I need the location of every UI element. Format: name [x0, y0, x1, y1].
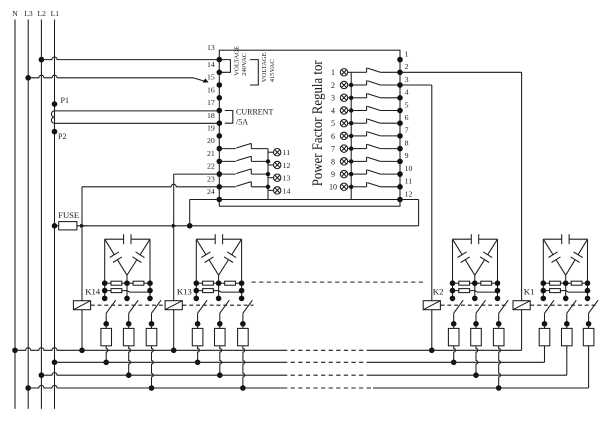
terminal 7 [397, 133, 403, 139]
main contact K2 phase 2 [476, 300, 486, 313]
wire terminal 24 to coil K14 with hop [82, 184, 219, 187]
svg-text:20: 20 [207, 136, 215, 145]
actuation dashed link of K14 [91, 304, 163, 306]
bus L3 vertical [27, 20, 29, 409]
discharge resistor row B of K1 [543, 290, 549, 292]
L3 distribution bus with hops over L2 L1 [28, 385, 283, 388]
wire CT l-terminal to terminal 19 [55, 122, 220, 124]
fixed contact dots of K1 [541, 296, 547, 302]
fuse of bank K2 phase 1 [448, 328, 459, 345]
relay switch for output 10 (terminal 11) [351, 186, 366, 188]
main contact K14 phase 1 [106, 300, 116, 313]
relay switch for output 13 (terminal 23) [219, 173, 236, 175]
delta capacitor on diagonal of K13 [232, 239, 242, 255]
capacitor unit K13 center leg [218, 275, 220, 298]
lead of bank K2 phase 3 to phase bus [499, 346, 501, 388]
junction L2 bottom bus [39, 372, 45, 378]
svg-text:4: 4 [331, 106, 335, 115]
delta capacitor on diagonal of K13 [196, 239, 206, 255]
wire terminal 23 to coil K13 [174, 173, 220, 175]
capacitor unit of bank K1 top edge with capacitor [543, 238, 561, 240]
lead of bank K1 phase 3 to phase bus [588, 346, 590, 388]
capacitor unit K2 left leg [452, 239, 454, 298]
junction right bus row 6 [349, 121, 353, 125]
junction bank K13 phase 2 [217, 372, 223, 378]
svg-text:17: 17 [207, 98, 215, 107]
svg-text:2: 2 [405, 62, 409, 71]
contactor coil K13 [165, 301, 182, 310]
relay switch for output 6 (terminal 7) [351, 135, 366, 137]
relay switch for output 12 (terminal 22) [219, 160, 236, 162]
junction coil K13 on N bus [171, 348, 177, 354]
crossing arrow at K13 coil riser [172, 224, 177, 228]
contactor coil K2 [423, 301, 440, 310]
junction right bus row 8 [349, 146, 353, 150]
left common bus inside U1 [267, 149, 269, 200]
capacitor unit of bank K2 top edge with capacitor [453, 238, 472, 240]
terminal 6 [397, 120, 403, 126]
left common exit terminal [217, 197, 223, 203]
junction right bus row 11 [349, 185, 353, 189]
bus L1 vertical [54, 20, 56, 409]
terminal 9 [397, 159, 403, 165]
svg-text:22: 22 [207, 162, 215, 171]
wire CT k-terminal to terminal 18 [55, 110, 220, 112]
fuse of bank K13 phase 3 [238, 328, 249, 345]
bracket VOLTAGE 415VAC terminals 14-16 [250, 60, 258, 85]
fuse F0 [59, 222, 77, 230]
terminal 22 [217, 159, 223, 165]
relay switch for output 4 (terminal 5) [351, 110, 366, 112]
discharge resistor row A of K2 [453, 282, 459, 284]
svg-text:12: 12 [405, 189, 413, 198]
terminal 5 [397, 108, 403, 114]
wire L1 to fuse F0 [55, 225, 59, 227]
capacitor unit K14 center leg [126, 275, 128, 298]
junction bank K2 phase 3 [496, 385, 502, 391]
svg-text:L3: L3 [24, 9, 33, 18]
svg-text:Power Factor Regula tor: Power Factor Regula tor [310, 60, 326, 186]
main contact K2 phase 3 [499, 300, 509, 313]
actuation dashed link of K13 [183, 304, 254, 306]
fuse of bank K1 phase 2 [562, 328, 573, 345]
fuse of bank K13 phase 1 [192, 328, 203, 345]
terminal 24 [217, 184, 223, 190]
junction L3 feed wire [25, 75, 31, 81]
delta capacitor on diagonal of K2 [453, 239, 463, 255]
svg-text:5: 5 [405, 100, 409, 109]
junction bank K2 phase 1 [451, 360, 457, 366]
capacitor unit K2 center leg [474, 275, 476, 298]
capacitor unit of bank K14 top edge with capacitor [105, 238, 124, 240]
svg-text:24: 24 [207, 187, 215, 196]
junction bank K14 phase 2 [126, 372, 132, 378]
main contact K2 phase 1 [454, 300, 464, 313]
svg-text:/5A: /5A [236, 118, 248, 127]
svg-text:13: 13 [207, 43, 215, 52]
svg-text:K2: K2 [433, 287, 444, 297]
svg-text:14: 14 [207, 60, 215, 69]
coil K14 lead to N bus [81, 310, 83, 351]
right common bus inside U1 [350, 72, 352, 199]
main contact K13 phase 2 [220, 300, 230, 313]
delta capacitor on diagonal of K1 [543, 239, 553, 255]
lead of bank K13 phase 2 to phase bus [220, 346, 222, 375]
svg-text:5: 5 [331, 119, 335, 128]
terminal 12 [397, 197, 403, 203]
lead of bank K13 phase 1 to phase bus [198, 346, 200, 363]
output lamp 11 [268, 151, 274, 153]
relay switch for output 11 (terminal 21) [219, 148, 236, 150]
svg-text:23: 23 [207, 174, 215, 183]
svg-text:9: 9 [331, 170, 335, 179]
svg-text:16: 16 [207, 85, 215, 94]
svg-text:10: 10 [405, 164, 413, 173]
svg-text:12: 12 [283, 161, 291, 170]
svg-text:N: N [12, 9, 18, 18]
fuse of bank K13 phase 2 [215, 328, 226, 345]
lead of bank K1 phase 2 to phase bus [566, 346, 568, 375]
lead of bank K1 phase 1 to phase bus [544, 346, 546, 363]
coil K1 lead to N bus [521, 310, 523, 351]
terminal 3 [397, 82, 403, 88]
capacitor unit K14 right leg [149, 239, 151, 298]
svg-text:19: 19 [207, 124, 215, 133]
main contact K1 phase 2 [567, 300, 577, 313]
main contact K1 phase 1 [545, 300, 555, 313]
discharge resistor row A of K13 [196, 282, 202, 284]
svg-text:10: 10 [329, 183, 337, 192]
junction bank K14 phase 1 [103, 360, 109, 366]
junction right bus row 5 [349, 108, 353, 112]
output lamp 12 [268, 164, 274, 166]
junction left bus row 24 [266, 185, 270, 189]
lead of bank K2 phase 2 to phase bus [476, 346, 478, 375]
junction left bus row 22 [266, 159, 270, 163]
fuse of bank K14 phase 2 [123, 328, 134, 345]
fuse of bank K2 phase 2 [471, 328, 482, 345]
wire common loop right branch [400, 199, 419, 201]
coil K2 lead to N bus [431, 310, 433, 351]
svg-text:15: 15 [207, 73, 215, 82]
terminal 18 [217, 108, 223, 114]
terminal 10 [397, 171, 403, 177]
terminal 16 [217, 82, 223, 88]
terminal 11 [397, 184, 403, 190]
terminal 19 [217, 120, 223, 126]
relay switch for output 1 (terminal 2) [351, 71, 366, 73]
L1 distribution bus [55, 361, 284, 363]
discharge resistor row A of K1 [543, 282, 549, 284]
junction right bus row 7 [349, 134, 353, 138]
svg-text:4: 4 [405, 88, 409, 97]
capacitor unit K14 left leg [104, 239, 106, 298]
main contact K13 phase 3 [243, 300, 253, 313]
arrow pointing to terminal 15 [193, 78, 206, 82]
wire L3 toward terminal 15 with hops over L2 and L1 [28, 75, 193, 78]
N distribution bus with hops over L3 L2 L1 [15, 348, 283, 351]
delta capacitor on diagonal of K14 [140, 239, 150, 255]
svg-text:2: 2 [331, 81, 335, 90]
junction coil K14 on N bus [79, 348, 85, 354]
svg-text:240VAC: 240VAC [241, 52, 248, 76]
relay switch for output 7 (terminal 8) [351, 148, 366, 150]
current transformer CT1 winding [51, 111, 54, 123]
output lamp 13 [268, 177, 274, 179]
svg-text:11: 11 [405, 177, 413, 186]
svg-text:9: 9 [405, 151, 409, 160]
junction coil K2 on N bus [429, 348, 435, 354]
terminal 17 [217, 95, 223, 101]
junction L1 bottom bus [52, 360, 58, 366]
svg-text:3: 3 [331, 94, 335, 103]
svg-text:P1: P1 [61, 96, 69, 105]
svg-text:1: 1 [331, 68, 335, 77]
lead of bank K14 phase 1 to phase bus [106, 346, 108, 363]
svg-text:L1: L1 [51, 9, 60, 18]
terminal 15 [217, 70, 223, 76]
svg-text:P2: P2 [58, 132, 66, 141]
wire L2 to terminal 14 with hop over L1 [41, 57, 219, 60]
svg-text:L2: L2 [37, 9, 46, 18]
crossing arrow at K14 coil riser [80, 224, 85, 228]
common line inside U1 [219, 199, 400, 201]
capacitor unit K1 center leg [565, 275, 567, 298]
discharge resistor row B of K2 [453, 290, 459, 292]
junction right bus row 3 [349, 83, 353, 87]
junction right bus row 9 [349, 159, 353, 163]
svg-text:21: 21 [207, 149, 215, 158]
junction right bus row 10 [349, 172, 353, 176]
relay switch for output 3 (terminal 4) [351, 97, 366, 99]
junction L1 control tap [52, 223, 58, 229]
svg-text:K14: K14 [85, 287, 101, 297]
output lamp 14 [268, 189, 274, 191]
capacitor unit K2 right leg [497, 239, 499, 298]
svg-text:1: 1 [405, 49, 409, 58]
actuation dashed link of K1 [530, 304, 598, 306]
relay switch for output 14 (terminal 24) [219, 186, 236, 188]
junction common loop [187, 223, 193, 229]
control wire fuse to common loop [77, 225, 416, 227]
svg-text:3: 3 [405, 75, 409, 84]
junction L2 to terminal 14 [39, 57, 45, 63]
bus N vertical [14, 20, 16, 409]
svg-text:8: 8 [331, 157, 335, 166]
fuse of bank K14 phase 1 [101, 328, 112, 345]
terminal 4 [397, 95, 403, 101]
svg-text:18: 18 [207, 111, 215, 120]
lead of bank K14 phase 2 to phase bus [129, 346, 131, 375]
svg-text:11: 11 [283, 148, 291, 157]
fuse of bank K1 phase 1 [539, 328, 550, 345]
delta capacitor on diagonal of K2 [488, 239, 498, 255]
relay switch for output 2 (terminal 3) [351, 84, 366, 86]
svg-text:7: 7 [405, 126, 409, 135]
svg-text:7: 7 [331, 145, 335, 154]
delta capacitor on diagonal of K1 [578, 239, 587, 255]
capacitor unit K1 left leg [542, 239, 544, 298]
contactor coil K1 [513, 301, 530, 310]
svg-text:13: 13 [283, 174, 291, 183]
capacitor unit of bank K13 top edge with capacitor [196, 238, 215, 240]
fixed contact dots of K13 [194, 296, 200, 302]
node P1 [52, 101, 58, 107]
L2 distribution bus with hop over L1 [41, 373, 283, 376]
lead of bank K13 phase 3 to phase bus [243, 346, 245, 388]
lead of bank K2 phase 1 to phase bus [454, 346, 456, 363]
fixed contact dots of K2 [450, 296, 456, 302]
discharge resistor row B of K13 [196, 290, 202, 292]
fixed contact dots of K14 [102, 296, 108, 302]
delta capacitor on diagonal of K14 [105, 239, 115, 255]
junction bank K13 phase 3 [240, 385, 246, 391]
svg-text:FUSE: FUSE [58, 210, 79, 220]
dashed continuation of capacitor bank row [252, 281, 424, 283]
svg-text:8: 8 [405, 138, 409, 147]
wire common loop left branch [189, 200, 191, 226]
terminal 1 [397, 57, 403, 63]
coil K13 lead to N bus [173, 310, 175, 351]
svg-text:VOLTAGE: VOLTAGE [261, 52, 268, 82]
actuation dashed link of K2 [441, 304, 509, 306]
wire terminal 2 to coil K1 [400, 71, 522, 73]
discharge resistor row A of K14 [105, 282, 111, 284]
junction L3 bottom bus [25, 385, 31, 391]
svg-text:6: 6 [331, 132, 335, 141]
main contact K14 phase 2 [129, 300, 139, 313]
svg-text:CURRENT: CURRENT [236, 107, 273, 116]
bracket CURRENT /5A terminals 18-19 [225, 111, 233, 124]
terminal 20 [217, 133, 223, 139]
fuse of bank K14 phase 3 [146, 328, 157, 345]
capacitor unit K13 left leg [195, 239, 197, 298]
main contact K13 phase 1 [198, 300, 208, 313]
svg-text:K13: K13 [177, 287, 192, 297]
junction N bottom bus [12, 348, 18, 354]
capacitor unit K1 right leg [587, 239, 589, 298]
terminal 2 [397, 70, 403, 76]
junction bank K2 phase 2 [473, 372, 479, 378]
relay switch for output 9 (terminal 10) [351, 173, 366, 175]
discharge resistor row B of K14 [105, 290, 111, 292]
relay switch for output 5 (terminal 6) [351, 122, 366, 124]
junction right bus row 4 [349, 96, 353, 100]
power factor regulator U1 outline [219, 50, 400, 206]
svg-text:415VAC: 415VAC [269, 59, 276, 83]
main contact K1 phase 3 [589, 300, 599, 313]
svg-text:14: 14 [283, 186, 291, 195]
svg-text:K1: K1 [524, 287, 535, 297]
terminal 14 [217, 57, 223, 63]
capacitor unit K13 right leg [241, 239, 243, 298]
fuse of bank K2 phase 3 [493, 328, 504, 345]
lead of bank K14 phase 3 to phase bus [152, 346, 154, 388]
node P2 [52, 129, 58, 135]
junction bank K13 phase 1 [195, 360, 201, 366]
svg-text:VOLTAGE: VOLTAGE [233, 46, 240, 76]
terminal 21 [217, 146, 223, 152]
contactor coil K14 [73, 301, 90, 310]
bus L2 vertical [40, 20, 42, 409]
svg-text:6: 6 [405, 113, 409, 122]
wire terminal 3 to coil K2 [400, 84, 432, 86]
junction left bus row 23 [266, 172, 270, 176]
fuse of bank K1 phase 3 [583, 328, 594, 345]
main contact K14 phase 3 [152, 300, 162, 313]
relay switch for output 8 (terminal 9) [351, 160, 366, 162]
terminal 23 [217, 171, 223, 177]
terminal 8 [397, 146, 403, 152]
junction bank K14 phase 3 [149, 385, 155, 391]
bracket VOLTAGE 240VAC terminals 14-15 [222, 60, 231, 73]
